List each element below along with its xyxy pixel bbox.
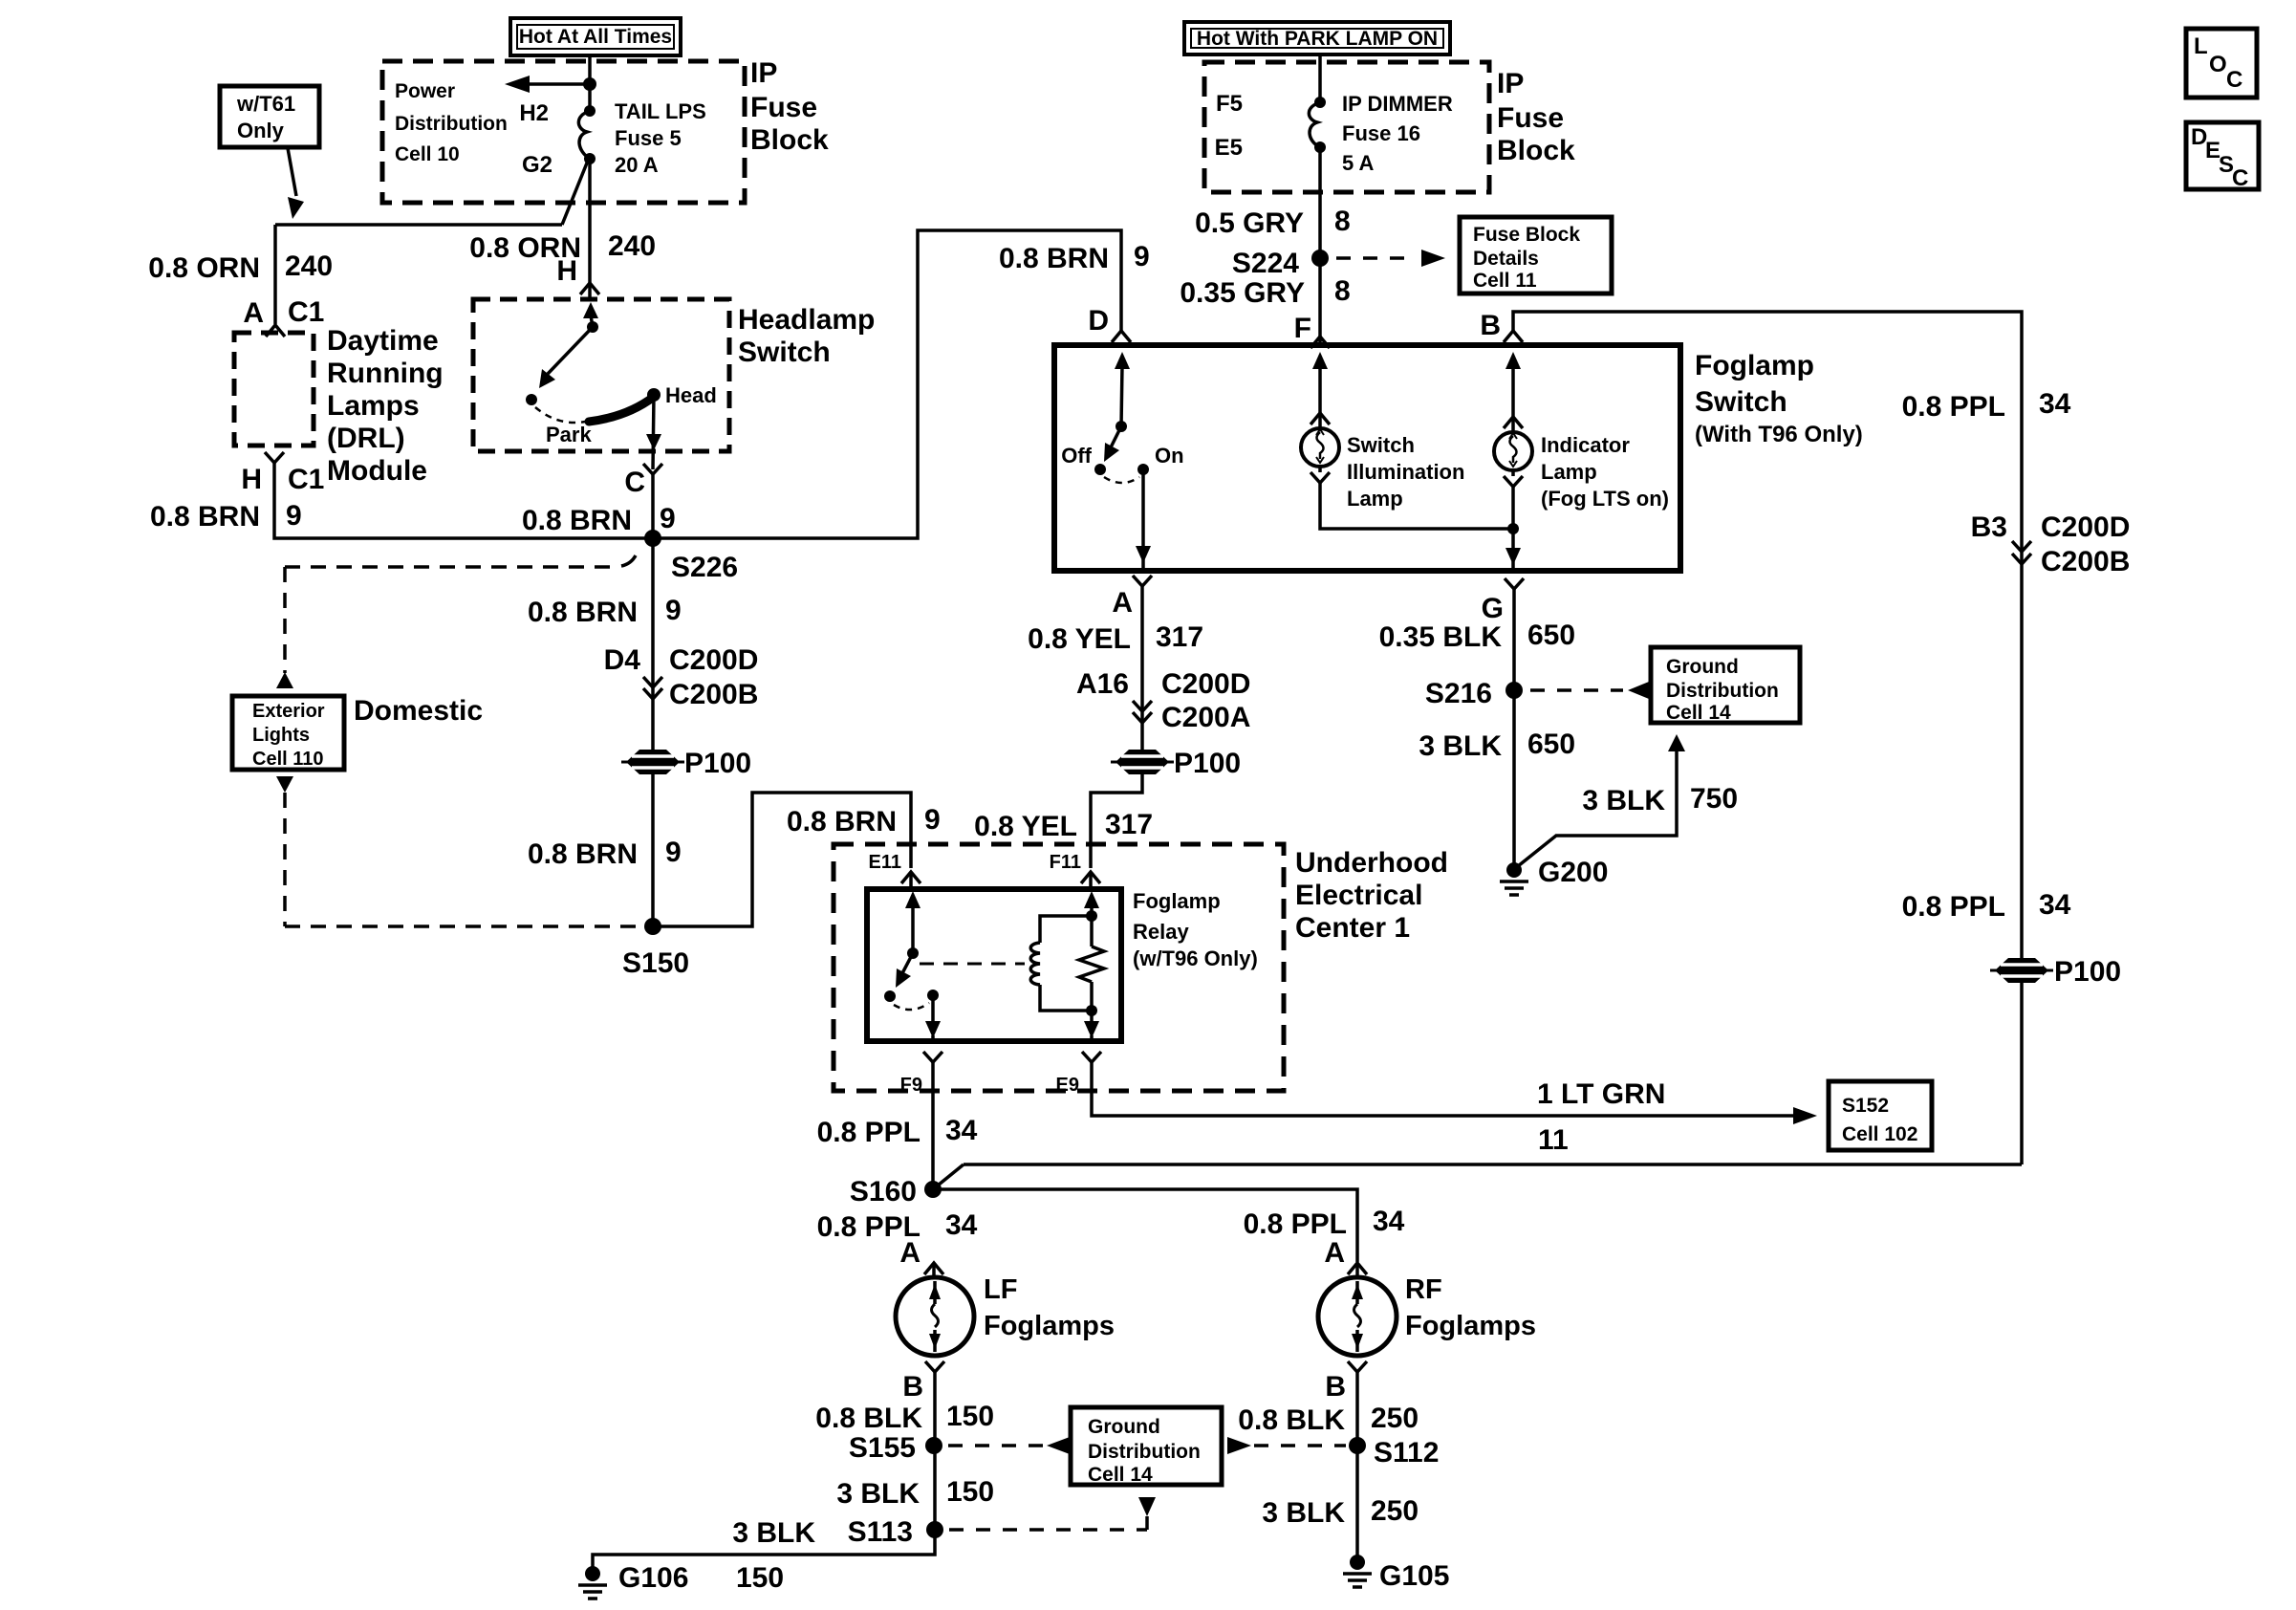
fuse terminal G2 <box>584 153 596 164</box>
RF foglamp <box>1318 1277 1397 1356</box>
svg-text:0.8 BRN: 0.8 BRN <box>528 597 638 628</box>
wire: LF B down to G106 <box>593 1372 935 1574</box>
svg-text:C1: C1 <box>288 296 324 328</box>
svg-text:Switch: Switch <box>1695 386 1787 418</box>
svg-text:Cell 10: Cell 10 <box>395 143 460 165</box>
relay box: Foglamp Relay <box>867 889 1121 1041</box>
svg-text:S224: S224 <box>1232 248 1299 279</box>
svg-text:Distribution: Distribution <box>395 113 508 135</box>
wire: S160 right to RF drop <box>933 1189 1357 1262</box>
svg-text:Hot With PARK LAMP ON: Hot With PARK LAMP ON <box>1197 28 1438 50</box>
pin E9 <box>1082 1052 1101 1062</box>
grommet P100 (YEL) <box>1111 750 1174 774</box>
wire: lamp to G junction <box>1320 483 1513 529</box>
ground G106 <box>585 1566 600 1581</box>
svg-text:C200D: C200D <box>1161 668 1250 700</box>
svg-text:F11: F11 <box>1050 852 1081 873</box>
svg-text:0.5 GRY: 0.5 GRY <box>1195 207 1304 239</box>
svg-text:On: On <box>1155 444 1184 468</box>
svg-text:Fuse: Fuse <box>750 92 817 123</box>
svg-text:9: 9 <box>286 500 302 532</box>
pin B RF <box>1348 1361 1367 1372</box>
svg-text:20 A: 20 A <box>615 153 659 177</box>
headlamp switch blade arrow <box>548 327 593 374</box>
label: Headlamp Switch <box>738 304 875 368</box>
svg-text:0.8 PPL: 0.8 PPL <box>1244 1208 1347 1240</box>
svg-text:250: 250 <box>1371 1495 1419 1527</box>
relay switch arm (from E11) <box>905 891 921 908</box>
label: Foglamp Relay (w/T96 Only) <box>1133 889 1258 970</box>
svg-text:Indicator: Indicator <box>1541 433 1630 457</box>
svg-text:Lights: Lights <box>252 725 310 746</box>
wire: B up and right to PPL bus <box>1513 312 2022 1164</box>
svg-text:w/T61: w/T61 <box>236 92 295 116</box>
arrow out of Exterior Lights box <box>276 776 293 793</box>
dashed arc Off to Park <box>535 407 585 423</box>
svg-text:0.35 GRY: 0.35 GRY <box>1180 277 1305 309</box>
svg-text:Head: Head <box>665 383 717 407</box>
foglamp switch On contact <box>1137 464 1149 475</box>
svg-text:0.35 BLK: 0.35 BLK <box>1379 621 1503 653</box>
wire: junction down to G <box>1511 529 1515 549</box>
svg-text:C200D: C200D <box>669 644 758 676</box>
wire C to S226 <box>651 474 655 538</box>
svg-text:C: C <box>2232 165 2248 191</box>
thick arc Park to Head <box>589 397 654 422</box>
svg-text:0.8 BRN: 0.8 BRN <box>522 505 632 536</box>
svg-text:Distribution: Distribution <box>1088 1441 1201 1463</box>
svg-text:E11: E11 <box>869 852 901 873</box>
svg-text:Park: Park <box>546 423 592 446</box>
svg-text:34: 34 <box>945 1115 978 1146</box>
relay actuation dashed link <box>920 963 1025 966</box>
relay coil <box>1040 916 1092 943</box>
fuse F5 terminal H2 <box>584 105 596 117</box>
svg-text:C200B: C200B <box>669 679 758 710</box>
Foglamp Switch box <box>1054 345 1680 571</box>
label box: w/T61 Only <box>220 86 319 147</box>
svg-text:0.8 BLK: 0.8 BLK <box>815 1403 922 1434</box>
svg-text:Only: Only <box>237 119 285 142</box>
svg-text:Power: Power <box>395 80 455 102</box>
svg-text:Off: Off <box>1061 444 1092 468</box>
dashed arc switch contacts <box>1104 477 1139 483</box>
node S150 <box>644 918 661 935</box>
svg-text:H: H <box>241 464 262 495</box>
svg-text:L: L <box>2194 33 2208 59</box>
svg-text:650: 650 <box>1527 620 1575 651</box>
wire: 3 BLK 750 branch to Ground Distribution <box>1518 751 1677 866</box>
svg-text:(With T96 Only): (With T96 Only) <box>1695 422 1863 447</box>
svg-text:P100: P100 <box>684 748 751 779</box>
dashed link S216 to Ground Distribution <box>1530 688 1623 692</box>
Underhood Electrical Center 1 dashed box <box>834 844 1284 1091</box>
svg-text:A: A <box>1324 1237 1345 1269</box>
svg-text:Distribution: Distribution <box>1666 680 1779 702</box>
svg-text:240: 240 <box>285 250 333 282</box>
svg-text:34: 34 <box>2039 889 2071 921</box>
svg-text:150: 150 <box>946 1476 994 1508</box>
svg-text:Foglamps: Foglamps <box>1405 1311 1536 1341</box>
svg-text:B: B <box>1325 1371 1346 1403</box>
svg-text:P100: P100 <box>2054 956 2121 988</box>
svg-text:H2: H2 <box>519 100 549 126</box>
svg-text:Details: Details <box>1473 248 1539 270</box>
svg-text:B: B <box>902 1371 923 1403</box>
svg-text:Illumination: Illumination <box>1347 460 1464 484</box>
wire: G down to G200 <box>1512 589 1516 870</box>
svg-text:E5: E5 <box>1215 135 1243 161</box>
wire: diagonal from G2 to DRL feed <box>562 161 588 225</box>
label: Daytime Running Lamps (DRL) Module <box>327 325 444 487</box>
wire: from Hot At All Times box down <box>588 54 592 111</box>
svg-text:S216: S216 <box>1425 678 1492 709</box>
svg-text:1 LT GRN: 1 LT GRN <box>1537 1078 1665 1110</box>
wire: S226 right up and over to foglamp switch D <box>653 230 1121 538</box>
svg-text:8: 8 <box>1334 206 1351 237</box>
svg-text:Switch: Switch <box>738 337 831 368</box>
node S216 <box>1505 682 1523 699</box>
svg-text:34: 34 <box>1373 1206 1405 1237</box>
label: Power Distribution Cell 10 <box>395 80 508 165</box>
label: Switch Illumination Lamp <box>1347 433 1464 511</box>
dashed wire: Exterior Lights to S150 <box>283 793 287 926</box>
svg-text:Block: Block <box>1497 135 1575 166</box>
svg-text:3 BLK: 3 BLK <box>1419 730 1502 762</box>
wire: foglamp switch A down through A16 C200D/C200A to P100 <box>1133 576 1152 586</box>
dashed link S224 to Fuse Block Details <box>1336 256 1417 260</box>
svg-text:250: 250 <box>1371 1403 1419 1434</box>
svg-text:Lamps: Lamps <box>327 390 420 422</box>
svg-text:3 BLK: 3 BLK <box>1582 785 1665 816</box>
svg-text:A16: A16 <box>1076 668 1129 700</box>
svg-text:Module: Module <box>327 455 427 487</box>
svg-text:C: C <box>2226 67 2242 93</box>
label box: S152 Cell 102 <box>1829 1081 1932 1150</box>
svg-text:S160: S160 <box>850 1176 917 1207</box>
svg-text:9: 9 <box>665 595 682 626</box>
svg-text:Fuse: Fuse <box>1497 102 1564 134</box>
svg-text:9: 9 <box>665 837 682 868</box>
svg-text:0.8 PPL: 0.8 PPL <box>817 1117 921 1148</box>
wire: E5 down to foglamp switch F <box>1318 147 1322 337</box>
label: IP Fuse Block (right) <box>1497 68 1575 166</box>
pin G <box>1505 578 1524 589</box>
svg-text:8: 8 <box>1334 275 1351 307</box>
headlamp switch Off contact <box>526 394 537 405</box>
svg-text:C200A: C200A <box>1161 702 1250 733</box>
svg-text:S226: S226 <box>671 552 738 583</box>
headlamp switch arrow up inside <box>583 302 598 318</box>
svg-text:G: G <box>1482 593 1504 624</box>
svg-text:F9: F9 <box>900 1075 922 1096</box>
svg-text:240: 240 <box>608 230 656 262</box>
svg-text:H: H <box>556 255 577 287</box>
svg-text:S150: S150 <box>622 947 689 979</box>
wire: S160 diagonal to right bus <box>933 1164 964 1189</box>
svg-text:0.8 PPL: 0.8 PPL <box>1902 391 2005 423</box>
svg-text:E9: E9 <box>1056 1075 1079 1096</box>
svg-text:3 BLK: 3 BLK <box>1262 1497 1345 1529</box>
wire: banner down to F5 <box>1318 54 1322 102</box>
arrow from w/T61 box to wire <box>288 148 296 196</box>
svg-text:IP: IP <box>1497 68 1524 99</box>
svg-text:G105: G105 <box>1379 1560 1449 1592</box>
svg-text:Domestic: Domestic <box>354 695 483 727</box>
svg-text:Headlamp: Headlamp <box>738 304 875 336</box>
svg-text:150: 150 <box>946 1401 994 1432</box>
wire: P100 down to S150 <box>651 773 655 926</box>
label box: LOC <box>2186 29 2257 98</box>
label: IP Fuse Block (left) <box>750 57 829 156</box>
svg-text:Foglamp: Foglamp <box>1695 350 1814 381</box>
svg-text:Cell 11: Cell 11 <box>1473 270 1537 292</box>
relay contact On <box>927 990 939 1001</box>
wire: On contact down to F9 <box>931 995 935 1023</box>
svg-text:S155: S155 <box>849 1432 916 1464</box>
svg-text:0.8 BRN: 0.8 BRN <box>528 838 638 870</box>
svg-text:Exterior: Exterior <box>252 701 325 722</box>
Headlamp Switch dashed box <box>473 299 729 451</box>
svg-text:Center 1: Center 1 <box>1295 912 1410 944</box>
svg-text:0.8 YEL: 0.8 YEL <box>974 811 1077 842</box>
svg-text:S152: S152 <box>1842 1095 1889 1117</box>
label box: Hot With PARK LAMP ON <box>1184 22 1450 54</box>
relay contact Off <box>884 990 896 1002</box>
label: IP DIMMER Fuse 16 5 A <box>1342 92 1453 175</box>
svg-text:G2: G2 <box>522 152 552 178</box>
svg-text:Fuse Block: Fuse Block <box>1473 224 1580 246</box>
svg-text:Block: Block <box>750 124 829 156</box>
LF foglamp <box>896 1277 974 1356</box>
svg-text:Cell 14: Cell 14 <box>1666 702 1731 724</box>
dashed wire: S226 to Exterior Lights <box>621 555 636 566</box>
svg-text:0.8 PPL: 0.8 PPL <box>1902 891 2005 923</box>
label box: Ground Distribution Cell 14 (upper) <box>1651 647 1800 724</box>
svg-text:0.8 YEL: 0.8 YEL <box>1028 623 1131 655</box>
svg-text:3 BLK: 3 BLK <box>836 1478 920 1510</box>
foglamp switch Off contact <box>1094 464 1106 475</box>
svg-text:0.8 BRN: 0.8 BRN <box>787 806 897 838</box>
svg-text:C200B: C200B <box>2041 546 2130 577</box>
label box: Ground Distribution Cell 14 (lower) <box>1071 1407 1222 1486</box>
wire: S150 to E11 <box>653 793 911 926</box>
svg-text:O: O <box>2209 52 2227 77</box>
dashed arc relay contacts <box>894 1003 929 1010</box>
svg-text:11: 11 <box>1538 1124 1569 1156</box>
svg-text:5 A: 5 A <box>1342 151 1375 175</box>
svg-text:D4: D4 <box>604 644 641 676</box>
label: Underhood Electrical Center 1 <box>1295 847 1448 944</box>
label: TAIL LPS Fuse 5 20 A <box>615 99 706 177</box>
wire: RF B down to G105 <box>1355 1372 1359 1562</box>
svg-text:Electrical: Electrical <box>1295 880 1422 911</box>
svg-text:A: A <box>1112 587 1133 619</box>
svg-text:Ground: Ground <box>1088 1416 1160 1438</box>
svg-text:Relay: Relay <box>1133 920 1189 944</box>
svg-text:Fuse 5: Fuse 5 <box>615 126 682 150</box>
wire: P100 to F11 <box>1091 773 1142 868</box>
node: junction on fuse feed <box>583 77 596 91</box>
node S226 <box>644 530 661 547</box>
svg-text:C1: C1 <box>288 464 324 495</box>
label: Indicator Lamp (Fog LTS on) <box>1541 433 1669 511</box>
svg-text:150: 150 <box>736 1562 784 1594</box>
svg-text:650: 650 <box>1527 729 1575 760</box>
svg-text:9: 9 <box>660 503 676 534</box>
svg-text:F: F <box>1294 313 1311 344</box>
svg-text:Lamp: Lamp <box>1541 460 1597 484</box>
svg-text:9: 9 <box>924 804 941 836</box>
svg-text:317: 317 <box>1156 621 1203 653</box>
fuse TAIL LPS Fuse 5 element <box>578 111 590 159</box>
svg-text:0.8 ORN: 0.8 ORN <box>148 252 260 284</box>
node S160 <box>924 1181 942 1198</box>
dashed link Ground Distribution to S112 <box>1227 1437 1251 1454</box>
svg-text:0.8 BRN: 0.8 BRN <box>150 501 260 533</box>
svg-text:317: 317 <box>1105 809 1153 840</box>
svg-text:Fuse 16: Fuse 16 <box>1342 121 1420 145</box>
svg-text:Foglamp: Foglamp <box>1133 889 1221 913</box>
ground G105 <box>1350 1555 1365 1570</box>
svg-text:G106: G106 <box>618 1562 688 1594</box>
svg-text:D: D <box>1088 305 1109 337</box>
IP fuse block (right) dashed box <box>1204 62 1489 192</box>
Head contact <box>647 388 661 402</box>
svg-text:P100: P100 <box>1174 748 1241 779</box>
svg-text:Foglamps: Foglamps <box>984 1311 1115 1341</box>
foglamp switch arm from D <box>1115 352 1130 369</box>
wire: DRL H down and right to S226 <box>274 463 653 538</box>
svg-text:F5: F5 <box>1216 91 1243 117</box>
svg-text:S112: S112 <box>1374 1437 1439 1469</box>
svg-text:0.8 BRN: 0.8 BRN <box>999 243 1109 274</box>
wire: G2 down to headlamp switch H <box>588 159 592 301</box>
svg-text:(DRL): (DRL) <box>327 423 405 454</box>
svg-text:C: C <box>624 467 645 498</box>
svg-text:S113: S113 <box>848 1516 913 1548</box>
label box: Hot At All Times <box>510 18 681 55</box>
svg-text:C200D: C200D <box>2041 511 2130 543</box>
wire: E9 to S152 arrow <box>1092 1062 1795 1116</box>
svg-text:Lamp: Lamp <box>1347 487 1403 511</box>
svg-text:Underhood: Underhood <box>1295 847 1448 879</box>
headlamp switch pivot <box>587 321 598 333</box>
svg-text:A: A <box>243 297 264 329</box>
pin B LF <box>925 1361 944 1372</box>
svg-text:Running: Running <box>327 358 444 389</box>
svg-text:34: 34 <box>2039 388 2071 420</box>
svg-text:750: 750 <box>1690 783 1738 815</box>
pin H / connector C1 below DRL <box>265 452 284 463</box>
svg-text:B3: B3 <box>1971 511 2007 543</box>
svg-text:RF: RF <box>1405 1274 1442 1305</box>
svg-text:Daytime: Daytime <box>327 325 439 357</box>
relay resistor (from F11) <box>1084 891 1099 908</box>
svg-text:A: A <box>899 1237 921 1269</box>
svg-text:Switch: Switch <box>1347 433 1415 457</box>
svg-text:Cell 110: Cell 110 <box>252 749 324 770</box>
svg-text:(Fog LTS on): (Fog LTS on) <box>1541 487 1669 511</box>
switch illumination lamp <box>1312 352 1328 369</box>
svg-text:G200: G200 <box>1538 857 1608 888</box>
label: Foglamp Switch (With T96 Only) <box>1695 350 1863 447</box>
dashed link S113 to Ground Distribution <box>949 1528 1147 1532</box>
svg-text:Cell 102: Cell 102 <box>1842 1123 1917 1145</box>
label box: Exterior Lights Cell 110 <box>232 696 344 770</box>
IP fuse block (left) dashed box <box>382 61 745 203</box>
node: lamp ground junction <box>1507 523 1519 534</box>
node S224 <box>1311 250 1329 267</box>
label box: Fuse Block Details Cell 11 <box>1460 217 1612 294</box>
svg-text:34: 34 <box>945 1209 978 1241</box>
grommet P100 (PPL) <box>1990 958 2053 983</box>
svg-text:Hot At All Times: Hot At All Times <box>519 26 672 48</box>
fuse IP DIMMER Fuse 16 terminals <box>1314 97 1326 108</box>
wire: On contact down to A <box>1141 469 1145 547</box>
DRL module dashed box <box>234 333 314 446</box>
wire: S226 down through D4 C200D/C200B to P100 <box>651 538 655 751</box>
svg-text:(w/T96 Only): (w/T96 Only) <box>1133 946 1258 970</box>
svg-text:3 BLK: 3 BLK <box>732 1517 815 1549</box>
svg-text:B: B <box>1480 310 1501 341</box>
svg-text:Cell 14: Cell 14 <box>1088 1464 1153 1486</box>
wire: arrow to Power Distribution <box>526 82 590 86</box>
svg-text:IP DIMMER: IP DIMMER <box>1342 92 1453 116</box>
node S155 <box>925 1437 942 1454</box>
indicator lamp <box>1505 352 1521 369</box>
wire: F9 down to S160 <box>931 1062 935 1189</box>
node S112 <box>1349 1437 1366 1454</box>
pin F9 <box>923 1052 942 1062</box>
pin C of headlamp switch <box>643 464 662 474</box>
grommet P100 (BRN) <box>621 750 684 774</box>
svg-text:TAIL LPS: TAIL LPS <box>615 99 706 123</box>
dashed link S155 to Ground Distribution <box>948 1444 1044 1447</box>
wire: Head down to C <box>653 395 654 469</box>
svg-text:9: 9 <box>1134 241 1150 272</box>
arrow into Exterior Lights box <box>276 672 293 688</box>
svg-text:0.8 BLK: 0.8 BLK <box>1238 1404 1345 1436</box>
svg-text:IP: IP <box>750 57 777 89</box>
label box: DESC <box>2186 122 2259 191</box>
svg-text:Ground: Ground <box>1666 656 1739 678</box>
svg-text:LF: LF <box>984 1274 1017 1305</box>
ground G200 <box>1506 862 1522 878</box>
node S113 <box>926 1521 943 1538</box>
